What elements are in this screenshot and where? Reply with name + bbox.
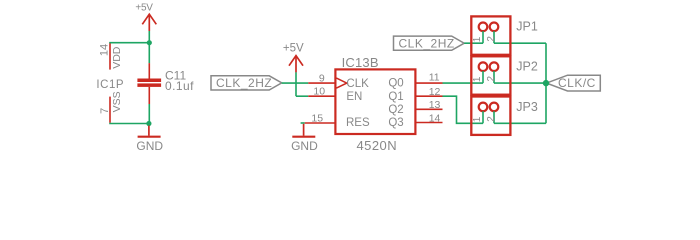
svg-text:JP1: JP1 <box>516 20 538 34</box>
svg-text:IC1P: IC1P <box>96 79 124 91</box>
svg-text:CLK/C: CLK/C <box>558 76 596 90</box>
svg-text:RES: RES <box>346 117 370 129</box>
svg-text:+5V: +5V <box>135 3 153 14</box>
svg-text:VDD: VDD <box>111 46 123 69</box>
svg-text:CLK_2HZ: CLK_2HZ <box>216 76 272 90</box>
svg-text:VSS: VSS <box>111 91 123 112</box>
svg-text:CLK: CLK <box>346 78 369 90</box>
svg-text:14: 14 <box>99 44 111 56</box>
svg-text:2: 2 <box>486 76 497 82</box>
svg-text:7: 7 <box>99 108 111 114</box>
svg-text:Q3: Q3 <box>388 117 403 129</box>
svg-text:IC13B: IC13B <box>342 55 379 70</box>
svg-text:Q0: Q0 <box>388 78 403 90</box>
svg-text:12: 12 <box>429 86 441 98</box>
svg-text:1: 1 <box>472 116 483 122</box>
svg-text:9: 9 <box>319 72 325 84</box>
svg-text:JP2: JP2 <box>516 60 538 74</box>
svg-text:GND: GND <box>291 139 318 153</box>
svg-text:CLK_2HZ: CLK_2HZ <box>399 36 455 50</box>
svg-text:Q2: Q2 <box>388 104 403 116</box>
svg-text:15: 15 <box>311 112 323 124</box>
svg-text:4520N: 4520N <box>357 138 398 153</box>
svg-text:JP3: JP3 <box>516 100 538 114</box>
svg-text:+5V: +5V <box>283 42 304 54</box>
svg-text:0.1uf: 0.1uf <box>165 79 194 93</box>
svg-text:2: 2 <box>486 36 497 42</box>
svg-text:14: 14 <box>429 112 441 124</box>
svg-text:1: 1 <box>472 76 483 82</box>
svg-text:10: 10 <box>313 86 325 98</box>
svg-text:GND: GND <box>136 139 163 153</box>
svg-text:13: 13 <box>429 99 441 111</box>
svg-text:11: 11 <box>429 72 440 84</box>
svg-text:EN: EN <box>346 91 362 103</box>
svg-text:Q1: Q1 <box>388 91 403 103</box>
svg-text:1: 1 <box>472 36 483 42</box>
svg-text:2: 2 <box>486 116 497 122</box>
